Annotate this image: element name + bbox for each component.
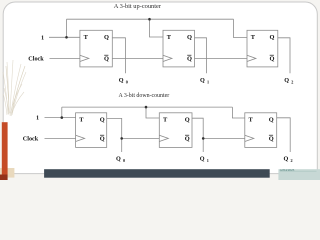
svg-text:Q: Q <box>116 155 121 162</box>
wire: Clock to U1 <box>50 57 80 59</box>
wire: U4 Q down to Q0 and branch <box>107 118 122 152</box>
flip-flop U2 clock triangle <box>163 55 172 61</box>
wire: U1 Q down to Q0 <box>112 38 125 74</box>
svg-text:Q: Q <box>104 34 109 41</box>
svg-text:Clock: Clock <box>28 56 44 63</box>
flip-flop U5 clock triangle <box>159 135 168 141</box>
wire: 1 to T of U1 <box>49 36 80 38</box>
wire: Clock to U4 <box>45 137 76 139</box>
svg-text:Q: Q <box>185 116 190 123</box>
beige corner square <box>0 168 14 178</box>
svg-text:Q: Q <box>104 55 109 62</box>
watermark grass <box>3 60 26 116</box>
svg-text:Q: Q <box>284 77 289 84</box>
svg-text:Q: Q <box>187 55 192 62</box>
wire: branch to U5 clock <box>122 137 160 139</box>
wire: vertical from 1-junction to top rail <box>66 19 68 37</box>
svg-text:Q: Q <box>119 77 124 84</box>
svg-text:Q: Q <box>269 116 274 123</box>
dark slate footer bar <box>44 169 270 178</box>
svg-text:A 3-bit down-counter: A 3-bit down-counter <box>118 93 169 99</box>
svg-text:Q: Q <box>270 55 275 62</box>
flip-flop U1 box <box>80 30 112 67</box>
svg-text:Q: Q <box>185 135 190 142</box>
teal footer bar <box>278 169 320 180</box>
flip-flop U6 box <box>245 113 277 148</box>
svg-text:Q: Q <box>269 135 274 142</box>
wire: rail drop to T of U2 <box>150 19 164 37</box>
svg-text:T: T <box>163 116 168 123</box>
wire: U1 Qbar to U2 clock <box>112 57 163 59</box>
wire: U6 Q down to Q2 <box>277 118 291 152</box>
orange accent bar <box>2 122 8 174</box>
wire: U5 Q down to Q1 and branch <box>192 118 203 152</box>
flip-flop U2 box <box>163 30 195 67</box>
svg-text:Q: Q <box>187 34 192 41</box>
junction node on rail above U2 <box>148 18 151 21</box>
flip-flop U6 clock triangle <box>245 135 254 141</box>
wire: top rail <box>67 18 234 20</box>
svg-text:2: 2 <box>291 158 293 163</box>
wire: U2 Q down to Q1 <box>195 38 207 74</box>
svg-text:A 3-bit up-counter: A 3-bit up-counter <box>114 3 162 10</box>
wire: U2 Qbar to U3 clock <box>195 57 248 59</box>
wire: rail drop to T of U6 <box>232 107 244 118</box>
svg-text:Q: Q <box>284 155 289 162</box>
svg-text:Q: Q <box>200 155 205 162</box>
junction node U5 Q to U6 clock <box>202 137 205 140</box>
flip-flop U4 clock triangle <box>76 135 85 141</box>
wire: vertical from 1-junction to lower rail <box>61 107 63 118</box>
svg-text:1: 1 <box>36 115 39 122</box>
wire: branch to U6 clock <box>203 137 245 139</box>
date underline <box>280 170 317 172</box>
svg-text:1: 1 <box>207 80 209 85</box>
svg-text:T: T <box>249 116 254 123</box>
maroon corner block <box>0 175 8 181</box>
svg-text:T: T <box>79 116 84 123</box>
junction node at 1 input <box>65 36 68 39</box>
junction node U4 Q to U5 clock <box>120 137 123 140</box>
svg-text:1: 1 <box>41 34 44 41</box>
junction node on lower rail above U5 <box>145 106 148 109</box>
junction node at 1 input (down) <box>61 116 64 119</box>
svg-text:T: T <box>167 34 172 41</box>
flip-flop U3 clock triangle <box>247 55 256 61</box>
wire: 1 to T of U4 <box>45 117 76 119</box>
svg-text:Q: Q <box>100 116 105 123</box>
svg-text:Clock: Clock <box>23 135 39 142</box>
flip-flop U1 clock triangle <box>80 55 89 61</box>
svg-text:12/04/2023: 12/04/2023 <box>279 168 294 172</box>
svg-text:1: 1 <box>207 158 209 163</box>
svg-text:T: T <box>251 34 256 41</box>
flip-flop U5 box <box>159 113 192 148</box>
wire: rail drop to T of U5 <box>146 107 159 118</box>
flip-flop U3 box <box>247 30 278 67</box>
svg-text:Q: Q <box>200 77 205 84</box>
svg-text:0: 0 <box>123 158 125 163</box>
slide background panel <box>3 2 317 174</box>
svg-text:Q: Q <box>270 34 275 41</box>
wire: U3 Q down to Q2 <box>278 38 290 74</box>
svg-text:0: 0 <box>126 80 128 85</box>
flip-flop U4 box <box>76 113 107 148</box>
svg-text:T: T <box>84 34 89 41</box>
svg-text:Q: Q <box>100 135 105 142</box>
wire: lower top rail <box>62 106 233 108</box>
svg-text:2: 2 <box>291 80 293 85</box>
wire: rail drop to T of U3 <box>234 19 248 37</box>
